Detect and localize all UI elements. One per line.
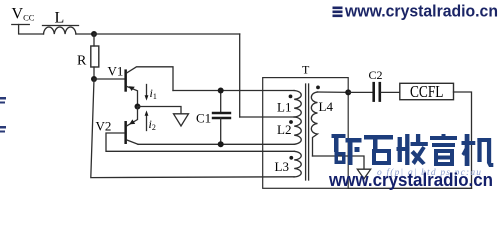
wire L4 bottom to ground	[313, 156, 365, 169]
transistor V1 emitter lead	[127, 87, 138, 107]
transformer core	[305, 84, 307, 180]
wire n1 to resistor R	[93, 34, 95, 46]
svg-text:L2: L2	[277, 122, 291, 137]
transistor V2 collector lead	[127, 140, 138, 144]
wire R to node n2	[93, 67, 95, 79]
logo char ji	[462, 134, 494, 167]
wire V1 collector rail to L1 top	[173, 90, 294, 92]
svg-text:V1: V1	[108, 63, 124, 78]
transistor V2 emitter lead	[127, 107, 138, 126]
svg-text:www.crystalradio.cn: www.crystalradio.cn	[328, 169, 493, 190]
node n1 (junction dot)	[91, 31, 97, 37]
svg-text:C1: C1	[196, 110, 211, 125]
capacitor C1 top wire	[220, 91, 222, 113]
svg-text:V2: V2	[96, 119, 112, 134]
svg-text:L1: L1	[277, 100, 291, 115]
logo char shi	[364, 135, 393, 165]
winding L4	[311, 92, 317, 156]
CCFL box	[400, 83, 454, 99]
winding L3	[294, 151, 301, 177]
node n2 (junction dot)	[91, 76, 97, 82]
wire CCFL right return	[454, 92, 472, 188]
phase dot L3	[289, 156, 293, 160]
wire n2 to V1 base	[94, 78, 124, 80]
wire V2 base loop	[106, 133, 294, 151]
svg-text:CCFL: CCFL	[410, 82, 444, 101]
watermark left-edge smudge 1	[0, 97, 6, 104]
winding L1	[294, 91, 301, 118]
inductor L	[44, 27, 76, 34]
svg-text:www.crystalradio.cn: www.crystalradio.cn	[344, 2, 498, 21]
winding L2	[294, 117, 301, 144]
node C1 bottom (junction dot)	[218, 141, 224, 147]
wire L to node n1	[76, 33, 94, 35]
current arrow i2	[146, 115, 148, 131]
wire n2 down left side	[91, 79, 294, 178]
svg-text:R: R	[77, 54, 87, 69]
wire L4 top to node B	[318, 91, 349, 93]
transistor V1 emitter arrow	[129, 86, 135, 91]
logo char yin	[430, 134, 457, 166]
logo char shou	[397, 134, 428, 165]
capacitor C1 bottom wire	[220, 118, 222, 144]
transformer T outline box	[263, 78, 349, 189]
svg-text:i1: i1	[150, 86, 157, 101]
svg-text:L3: L3	[275, 159, 289, 174]
ground symbol (L4)	[357, 169, 370, 179]
ground symbol (node A)	[174, 114, 189, 126]
wire V2 collector to L2 bottom	[138, 143, 294, 145]
wire C2 to CCFL	[381, 91, 400, 93]
wire node A to ground	[138, 107, 182, 114]
svg-text:L4: L4	[319, 99, 334, 114]
wire top rail n1 to corner	[94, 33, 240, 35]
wire Vcc down to rail	[19, 25, 44, 35]
phase dot L2	[289, 120, 293, 124]
node B (junction dot)	[345, 89, 351, 95]
capacitor C1 plates	[213, 112, 230, 114]
svg-text:C2: C2	[369, 68, 383, 82]
transistor V1 base bar	[124, 69, 127, 91]
wire bottom rail to CCFL return	[348, 187, 471, 189]
svg-text:T: T	[302, 63, 310, 77]
inductor L overline	[43, 25, 79, 27]
wire node B to C2	[348, 91, 372, 93]
Vcc terminal bar	[12, 24, 30, 26]
node A (junction dot)	[135, 104, 141, 110]
transistor V2 base bar	[124, 121, 127, 144]
transistor V1 collector lead	[127, 67, 173, 91]
transistor V2 emitter arrow	[129, 119, 135, 124]
wire center tap to transformer	[240, 116, 295, 118]
svg-text:L: L	[55, 9, 65, 26]
svg-text:VCC: VCC	[12, 6, 35, 23]
watermark logo 矿石收音机	[332, 134, 494, 167]
capacitor C2 plates	[372, 83, 375, 100]
wire down to center tap	[239, 34, 241, 117]
resistor R body	[91, 46, 99, 67]
logo char kuang	[332, 134, 362, 165]
phase dot L4	[316, 86, 320, 90]
node C1 top (junction dot)	[218, 88, 224, 94]
phase dot L1	[289, 95, 293, 99]
current arrow i1	[146, 85, 148, 97]
svg-text:i2: i2	[149, 117, 156, 132]
watermark left-edge smudge 2	[0, 126, 6, 133]
watermark top-right www.crystalradio.cn	[333, 2, 499, 21]
